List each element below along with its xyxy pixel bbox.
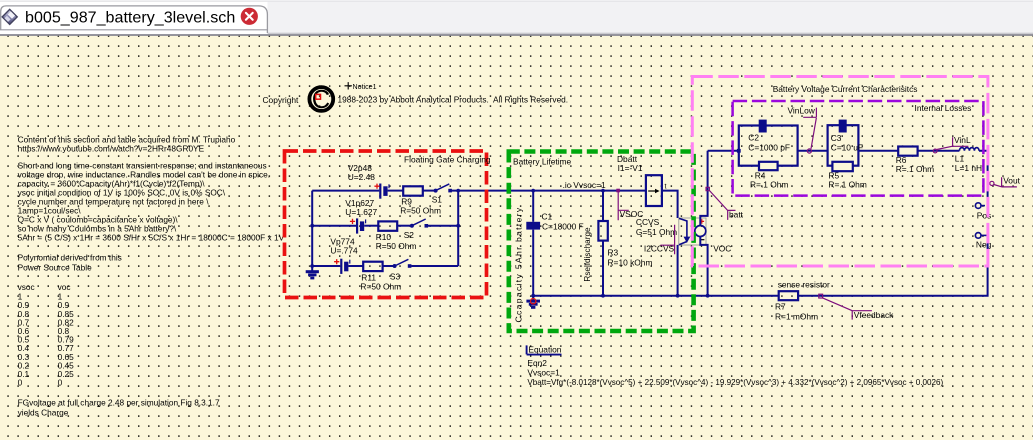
svg-text:R=.1 Ohm: R=.1 Ohm xyxy=(750,180,788,190)
capacitor C3 with resistor R5 (parallel block) xyxy=(828,120,867,190)
svg-text:5Ahr = (5 C/S) x 1Hr = 3600 S/: 5Ahr = (5 C/S) x 1Hr = 3600 S/Hr x 5C/S … xyxy=(18,233,285,243)
resistor R3 xyxy=(598,221,652,267)
svg-text:0: 0 xyxy=(58,378,63,388)
wire R3 branch upper xyxy=(602,191,604,221)
capacitor C1 xyxy=(526,211,583,231)
svg-text:Notice1: Notice1 xyxy=(353,83,377,91)
svg-text:S1: S1 xyxy=(432,194,443,204)
svg-text:Equation: Equation xyxy=(528,344,561,354)
resistor R7 sense resistor xyxy=(775,279,830,321)
svg-text:1988-2023 by Abbott Analytical: 1988-2023 by Abbott Analytical Products.… xyxy=(338,95,569,105)
label Ccapacity 5Ahr battery (vertical) xyxy=(514,207,524,323)
wire row1 left xyxy=(312,190,379,192)
svg-text:R=.1 Ohm: R=.1 Ohm xyxy=(828,180,866,190)
resistor R9 xyxy=(400,186,441,215)
svg-text:Battery Lifetime: Battery Lifetime xyxy=(513,156,572,166)
wire Neg to bottom rail xyxy=(798,235,988,295)
wire battery to R10 xyxy=(364,225,378,227)
voltage source V2p48 xyxy=(348,163,389,199)
svg-text:S2: S2 xyxy=(404,230,415,240)
wire right bus of charging section xyxy=(456,191,460,266)
wire row3 left xyxy=(312,265,340,267)
tab title text xyxy=(25,8,235,26)
svg-text:sense resistor: sense resistor xyxy=(778,279,830,289)
switch S3 xyxy=(390,259,412,281)
svg-text:Battery Voltage Current Charac: Battery Voltage Current Characterisitcs xyxy=(773,84,918,94)
power source table xyxy=(18,282,220,417)
label Vout wire name xyxy=(990,176,1021,187)
wire probe to CCVS corner xyxy=(662,191,678,218)
svg-text:Internal Losses: Internal Losses xyxy=(915,103,972,113)
wire R6 to L1 xyxy=(918,150,960,152)
svg-text:C: C xyxy=(312,86,330,114)
label batt wire name xyxy=(706,187,744,220)
port Neg xyxy=(975,233,991,250)
label Rselfdischarge (vertical) xyxy=(583,227,592,282)
svg-text:S3: S3 xyxy=(390,272,401,282)
svg-text:yields Charge: yields Charge xyxy=(18,407,69,417)
svg-text:R=50 Ohm: R=50 Ohm xyxy=(360,282,401,292)
controlled source CCVS I2CCVS xyxy=(636,217,706,254)
ground (red box) xyxy=(306,266,319,279)
wire left bus of charging section xyxy=(310,191,314,268)
editor tab bar xyxy=(0,0,1033,36)
svg-text:0: 0 xyxy=(18,378,23,388)
resistor R6 xyxy=(896,147,934,175)
svg-text:Polynomial derived from this: Polynomial derived from this xyxy=(18,253,122,263)
svg-text:U=1.627: U=1.627 xyxy=(345,207,377,217)
tab close button xyxy=(241,8,258,25)
wire batt node to C2 block xyxy=(708,150,739,152)
svg-text:Rselfdischarge: Rselfdischarge xyxy=(583,227,592,282)
svg-text:I1=-V1: I1=-V1 xyxy=(618,163,643,173)
svg-text:L1: L1 xyxy=(955,153,965,163)
svg-text:R=.1 Ohm: R=.1 Ohm xyxy=(896,164,934,174)
frame Battery Voltage Current Characterisitcs box xyxy=(692,77,988,267)
tab document icon xyxy=(2,9,17,24)
svg-text:Copyright: Copyright xyxy=(263,95,300,105)
wire R10 to S2 xyxy=(397,225,412,227)
svg-text:C2: C2 xyxy=(748,133,759,143)
svg-text:R3: R3 xyxy=(608,247,619,257)
svg-text:VinL: VinL xyxy=(954,135,971,145)
label VinLow wire name xyxy=(788,105,817,153)
svg-text:Vbatt=Vfg*(-8.0128*(Vvsoc^5) +: Vbatt=Vfg*(-8.0128*(Vvsoc^5) + 22.509*(V… xyxy=(527,378,943,387)
label VSOC wire name xyxy=(616,189,643,221)
wire C2 block to C3 block xyxy=(798,150,828,152)
resistor R10 xyxy=(376,221,417,250)
equation Eqn2 xyxy=(527,344,944,387)
svg-text:R=10 kOhm: R=10 kOhm xyxy=(608,257,653,267)
svg-text:.ic Vvsoc=1: .ic Vvsoc=1 xyxy=(563,180,606,190)
svg-text:t: t xyxy=(665,184,667,191)
frame Floating Gate Charging box xyxy=(285,151,491,298)
wire bottom rail xyxy=(531,294,778,298)
wire R3 branch lower xyxy=(602,241,604,296)
wire row2 left xyxy=(312,225,356,227)
svg-text:Floating Gate Charging: Floating Gate Charging xyxy=(404,155,491,165)
svg-text:Vvsoc=1: Vvsoc=1 xyxy=(527,368,560,378)
copyright logo xyxy=(309,86,333,114)
svg-text:CCVS: CCVS xyxy=(636,217,660,227)
svg-text:Vout: Vout xyxy=(1003,176,1020,186)
wire S1 to green box xyxy=(452,189,510,193)
wire C1 branch upper xyxy=(532,191,534,222)
frame Battery Lifetime box xyxy=(509,152,694,332)
svg-text:C=18000 F: C=18000 F xyxy=(542,221,584,231)
svg-text:batt: batt xyxy=(729,209,744,219)
svg-text:Ccapacity 5Ahr battery: Ccapacity 5Ahr battery xyxy=(514,207,524,323)
wire R9 to S1 xyxy=(423,190,436,192)
capacitor C2 with resistor R4 (parallel block) xyxy=(737,120,798,190)
svg-text:vsoc: vsoc xyxy=(18,282,35,292)
svg-text:VinLow: VinLow xyxy=(788,105,816,115)
port Pos xyxy=(975,203,991,221)
resistor R11 xyxy=(360,262,401,292)
svg-text:U=.774: U=.774 xyxy=(330,246,358,256)
wire battery to R11 xyxy=(348,265,363,267)
voltage source V1p627 xyxy=(345,198,377,234)
wire CCVS right-top to batt node xyxy=(700,151,707,226)
svg-text:L=1 nH: L=1 nH xyxy=(955,163,982,173)
svg-text:voc: voc xyxy=(58,282,71,292)
left notes text block xyxy=(18,135,285,273)
notice marker Notice1 xyxy=(345,82,377,91)
wire S2 to right bus xyxy=(428,225,458,227)
svg-text:C=10 uF: C=10 uF xyxy=(831,142,863,152)
voltage source Vp774 xyxy=(330,237,358,274)
svg-text:https://www.youtube.com/watch?: https://www.youtube.com/watch?v=2HRr48GR… xyxy=(18,144,205,154)
label VOC xyxy=(713,244,731,254)
wire main top rail in green box xyxy=(509,180,646,193)
frame Internal Losses box xyxy=(733,101,984,196)
svg-text:b005_987_battery_3level.sch: b005_987_battery_3level.sch xyxy=(25,8,235,26)
wire C3 block to R6 xyxy=(858,150,898,152)
svg-text:R7: R7 xyxy=(775,302,786,312)
svg-text:Vfeedback: Vfeedback xyxy=(854,310,894,320)
svg-text:FGvoltage at full charge 2.48: FGvoltage at full charge 2.48 per simula… xyxy=(18,397,220,407)
switch S1 xyxy=(432,184,452,205)
svg-text:G=51 Ohm: G=51 Ohm xyxy=(636,227,677,237)
label VinL wire name xyxy=(933,135,971,153)
svg-text:R=50 Ohm: R=50 Ohm xyxy=(376,241,417,251)
copyright text xyxy=(263,95,569,106)
label Vfeedback wire name xyxy=(819,294,894,320)
svg-text:R=50 Ohm: R=50 Ohm xyxy=(400,206,441,216)
svg-text:U=2.48: U=2.48 xyxy=(348,172,376,182)
svg-text:VOC: VOC xyxy=(713,244,731,254)
svg-text:Power Source Table: Power Source Table xyxy=(18,263,92,273)
wire battery to R9 xyxy=(388,190,403,192)
switch S2 xyxy=(404,219,428,240)
svg-text:R=1 mOhm: R=1 mOhm xyxy=(775,312,818,322)
ground with node marker (green box) xyxy=(526,296,540,309)
wire C1 branch lower xyxy=(532,230,534,296)
wire R11 to S3 xyxy=(383,265,395,267)
wire CCVS right-bottom to bus xyxy=(700,237,707,296)
wire L1 to output corner xyxy=(979,151,988,206)
wire S3 to right bus xyxy=(411,265,458,267)
wire CCVS left-bottom to bus xyxy=(677,245,679,296)
svg-text:C1: C1 xyxy=(542,211,553,221)
inductor L1 xyxy=(955,148,982,173)
current probe Dbatt xyxy=(617,154,667,206)
svg-text:C=1000 pF: C=1000 pF xyxy=(748,142,790,152)
